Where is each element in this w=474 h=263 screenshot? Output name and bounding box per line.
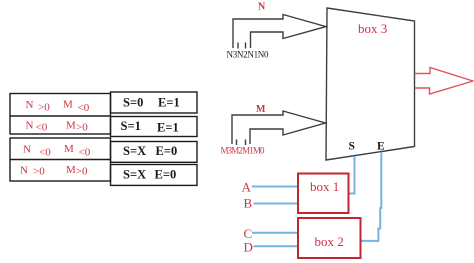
input label B <box>244 196 253 211</box>
truth table left column lower block (rows 3-4) <box>10 138 111 181</box>
input label D <box>244 240 253 255</box>
svg-text:>0: >0 <box>76 122 88 134</box>
bus N bit tick N2 <box>237 43 239 49</box>
svg-text:E=1: E=1 <box>157 121 179 135</box>
svg-text:<0: <0 <box>79 147 91 159</box>
svg-text:M: M <box>63 99 73 111</box>
svg-text:box 3: box 3 <box>358 21 387 36</box>
svg-text:N: N <box>258 2 266 13</box>
svg-text:S=X: S=X <box>123 144 146 158</box>
bus N bit tick N1 <box>245 43 247 49</box>
truth table right column cell row3 <box>111 142 198 163</box>
truth table left column upper block (rows 1-2) <box>10 94 111 135</box>
wire E to box 2 <box>361 152 382 241</box>
svg-text:<0: <0 <box>39 147 51 159</box>
svg-text:S=0: S=0 <box>123 96 143 110</box>
label box 2 <box>315 234 344 249</box>
svg-text:>0: >0 <box>76 166 88 178</box>
svg-text:S=X: S=X <box>123 168 146 182</box>
box 1 <box>298 174 349 214</box>
bus M bit tick M1 <box>245 140 247 146</box>
svg-text:N: N <box>26 120 34 132</box>
label box 3 <box>358 21 387 36</box>
truth table right column cell row1 <box>111 92 198 113</box>
svg-text:B: B <box>244 196 253 211</box>
truth table right column cell row2 <box>111 117 198 137</box>
svg-text:M3M2M1M0: M3M2M1M0 <box>221 146 266 156</box>
pin label S <box>349 141 355 153</box>
svg-text:E=1: E=1 <box>158 96 180 110</box>
svg-text:M: M <box>256 104 266 115</box>
svg-text:S: S <box>349 141 355 153</box>
wire A <box>252 186 298 188</box>
bus arrow N into box 3 <box>233 15 326 49</box>
table row4 output text S=X E=0 <box>123 168 176 182</box>
truth table right column cell row4 <box>111 165 198 186</box>
svg-text:E=0: E=0 <box>156 144 178 158</box>
label M3M2M1M0 <box>221 146 266 156</box>
wire C <box>252 232 298 234</box>
wire D <box>254 245 299 247</box>
svg-text:<0: <0 <box>78 102 90 114</box>
svg-text:N3N2N1N0: N3N2N1N0 <box>227 50 270 60</box>
svg-text:N: N <box>26 99 34 111</box>
bus arrow M into box 3 <box>232 111 326 144</box>
svg-text:M: M <box>66 120 76 132</box>
label box 1 <box>310 179 339 194</box>
table row3 condition text N<0 M<0 <box>23 143 91 159</box>
input label C <box>244 226 253 241</box>
table row1 condition text N>0 M<0 <box>26 99 90 115</box>
svg-text:N: N <box>20 165 28 177</box>
svg-text:S=1: S=1 <box>121 119 141 133</box>
table row4 condition text N>0 M>0 <box>20 164 88 178</box>
input label A <box>242 180 252 195</box>
svg-text:A: A <box>242 180 252 195</box>
svg-text:<0: <0 <box>36 122 48 134</box>
svg-text:>0: >0 <box>33 166 45 178</box>
svg-text:E=0: E=0 <box>155 168 177 182</box>
svg-text:box 2: box 2 <box>315 234 344 249</box>
pin label E <box>377 141 385 153</box>
svg-text:box 1: box 1 <box>310 179 339 194</box>
svg-text:D: D <box>244 240 253 255</box>
table row2 condition text N<0 M>0 <box>26 120 89 134</box>
label M <box>256 104 266 115</box>
box 3 comparator block <box>326 8 415 160</box>
svg-text:M: M <box>64 143 74 155</box>
box 2 <box>298 218 361 258</box>
svg-text:N: N <box>23 144 31 156</box>
svg-text:M: M <box>66 164 76 176</box>
label N <box>258 2 266 13</box>
wire B <box>254 203 299 205</box>
label N3N2N1N0 <box>227 50 270 60</box>
bus M bit tick M2 <box>236 140 238 146</box>
table row1 output text S=0 E=1 <box>123 96 180 110</box>
svg-text:E: E <box>377 141 385 153</box>
svg-text:>0: >0 <box>38 102 50 114</box>
red output arrow from box 3 <box>415 68 474 95</box>
table row3 output text S=X E=0 <box>123 144 177 158</box>
wire S to box 1 <box>349 156 355 194</box>
table row2 output text S=1 E=1 <box>121 119 179 135</box>
